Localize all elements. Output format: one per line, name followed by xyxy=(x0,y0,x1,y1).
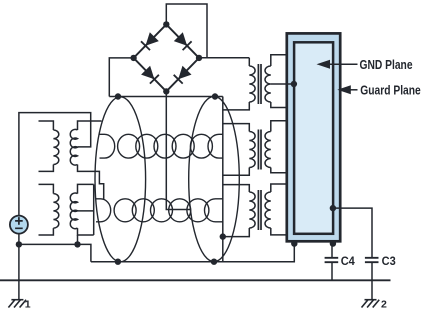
transformer T6 secondary winding xyxy=(265,132,271,168)
twisted pair 1 left termination xyxy=(100,134,115,158)
ground bus xyxy=(0,279,391,281)
transformer T5 primary bottom lead xyxy=(223,102,250,110)
guard plane (outer ring) xyxy=(287,33,340,241)
svg-text:GND Plane: GND Plane xyxy=(360,58,413,72)
junction source return xyxy=(16,241,22,247)
transformer T3 primary stub top xyxy=(39,121,54,130)
bridge right node xyxy=(196,55,202,61)
capacitor C3 xyxy=(365,258,379,262)
transformer T5 secondary center tap to GND plane xyxy=(271,83,294,85)
junction T4 return xyxy=(74,241,80,247)
junction GND plane tap xyxy=(291,81,297,87)
diode D3 xyxy=(141,66,159,84)
wire GND plane tap to C3 xyxy=(333,208,372,258)
transformer T4 secondary bracket xyxy=(93,184,95,235)
twisted pair 1 loops xyxy=(118,134,213,158)
transformer T5 secondary bottom lead xyxy=(271,102,287,108)
diode bridge frame xyxy=(134,24,199,91)
wire right vertical bus xyxy=(222,97,224,262)
svg-text:1: 1 xyxy=(25,298,31,308)
transformer T5 primary winding xyxy=(249,66,255,102)
wire bridge left node to shield rail xyxy=(109,58,133,97)
wire C4 bottom xyxy=(331,262,333,280)
transformer T7 primary top lead xyxy=(223,185,250,192)
bridge left node xyxy=(130,55,136,61)
junction shield 1 bottom xyxy=(115,259,121,265)
transformer T4 primary winding xyxy=(53,194,58,228)
wire bridge right node rail xyxy=(199,57,249,59)
wire C4 top xyxy=(331,244,333,258)
wire source bottom to ground 1 xyxy=(18,234,20,300)
twisted pair 2 left termination xyxy=(96,199,111,222)
transformer T4 secondary stub top xyxy=(78,184,94,193)
transformer T3 secondary bottom to pair 2 xyxy=(78,165,104,200)
junction bus T7 xyxy=(220,233,226,239)
transformer T7 secondary top lead xyxy=(271,184,287,192)
transformer T6 secondary bottom lead xyxy=(271,168,287,173)
voltage source V1 xyxy=(10,216,28,234)
junction guard plane to C4 xyxy=(330,240,336,246)
cable shield 2 xyxy=(189,96,240,261)
transformer T4 secondary stub bottom xyxy=(78,228,94,235)
svg-text:2: 2 xyxy=(381,298,387,308)
transformer T6 secondary top lead xyxy=(271,121,287,132)
transformer T7 core xyxy=(258,190,261,230)
transformer T3 secondary winding xyxy=(70,129,77,165)
ground 2 (chassis) xyxy=(362,298,388,310)
junction shield 1 top xyxy=(115,93,121,99)
transformer T7 primary winding xyxy=(249,192,255,228)
wire T4 secondary to return xyxy=(77,235,79,244)
transformer T6 core xyxy=(258,130,261,170)
transformer T7 secondary bottom lead xyxy=(271,228,287,235)
transformer T6 primary top lead xyxy=(223,124,250,132)
wire shield bottom rail xyxy=(91,244,294,262)
transformer T6 primary bottom lead xyxy=(223,168,250,176)
junction shield 2 top xyxy=(212,93,218,99)
transformer T5 core xyxy=(258,64,261,104)
transformer T3 primary winding xyxy=(53,130,58,164)
junction shield 2 bottom xyxy=(211,259,217,265)
svg-text:C4: C4 xyxy=(341,256,356,268)
transformer T5 primary top lead xyxy=(248,58,250,66)
transformer T6 primary winding xyxy=(249,132,255,168)
svg-text:C3: C3 xyxy=(382,256,396,268)
wire C3 bottom to ground 2 xyxy=(371,262,373,299)
ground 1 (chassis) xyxy=(8,298,30,310)
GND plane (inner rect) xyxy=(294,42,333,234)
transformer T4 secondary winding xyxy=(70,193,77,229)
svg-text:Guard Plane: Guard Plane xyxy=(360,83,421,97)
transformer T5 secondary top lead xyxy=(271,55,287,66)
bridge top node xyxy=(163,21,169,27)
diode D2 xyxy=(174,32,192,50)
wire bridge output top xyxy=(166,4,207,58)
wire left loop: source to T3 tap xyxy=(19,113,91,216)
wire source return xyxy=(19,244,91,261)
transformer T5 secondary winding xyxy=(265,66,271,102)
label GND Plane with arrow xyxy=(317,58,413,72)
diode D1 xyxy=(141,32,159,50)
wire bridge bottom to cable shield 2 xyxy=(166,91,190,209)
capacitor C4 xyxy=(325,258,339,262)
wire shield top rail xyxy=(109,96,223,98)
transformer T7 primary bottom lead xyxy=(223,228,250,237)
junction guard plane left xyxy=(291,240,297,246)
transformer T7 secondary winding xyxy=(265,192,271,228)
bridge bottom node xyxy=(163,88,169,94)
cable shield 1 xyxy=(95,97,146,262)
label Guard Plane with arrow xyxy=(337,83,421,97)
transformer T4 secondary center tap xyxy=(78,210,94,212)
transformer T3 primary stub bottom xyxy=(39,165,54,172)
transformer T3 secondary stub top xyxy=(78,121,102,130)
junction GND plane to C3 xyxy=(330,205,336,211)
twisted pair 2 loops xyxy=(114,199,209,222)
transformer T4 primary stub bottom xyxy=(39,228,54,235)
diode D4 xyxy=(174,66,192,84)
twisted pair 2 right termination xyxy=(205,199,223,222)
twisted pair 1 right termination xyxy=(208,134,223,158)
transformer T4 primary stub top xyxy=(39,184,54,193)
